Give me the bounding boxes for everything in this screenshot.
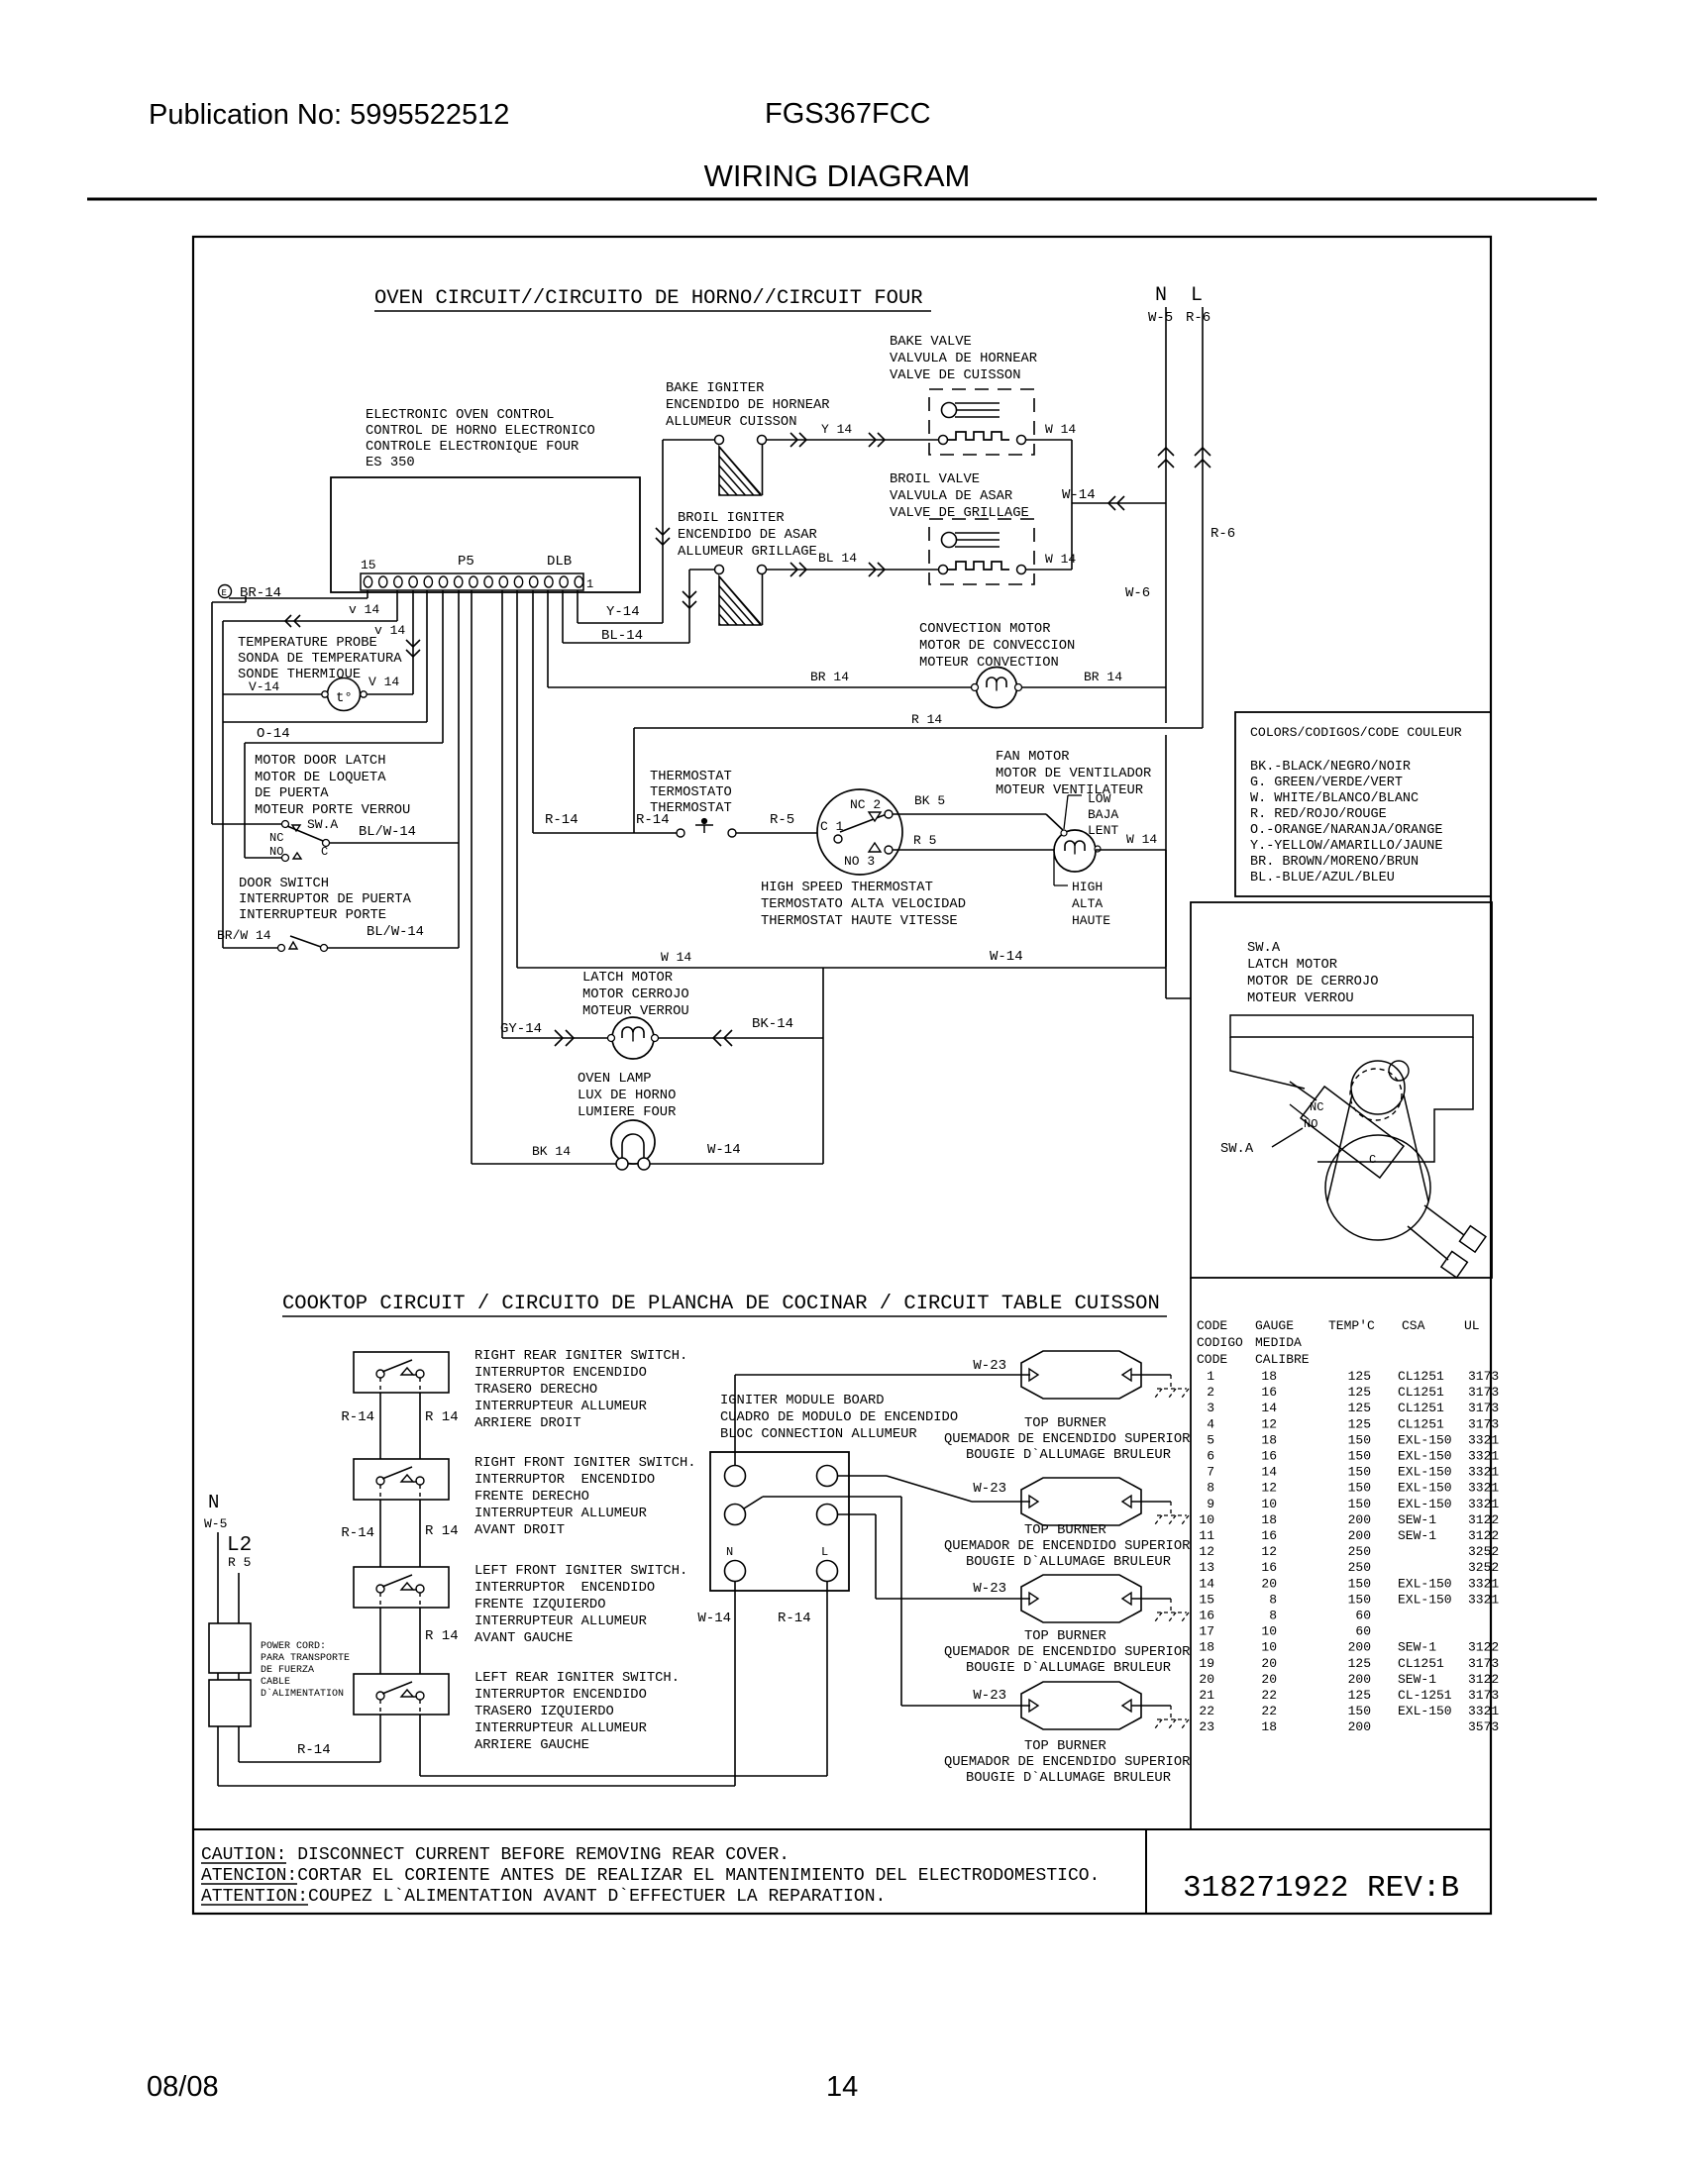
svg-text:v 14: v 14 — [374, 623, 405, 638]
svg-text:BR. BROWN/MORENO/BRUN: BR. BROWN/MORENO/BRUN — [1250, 855, 1419, 870]
bake valve coil — [939, 436, 948, 445]
module board terminals — [725, 1466, 746, 1487]
thermostat enclosure top wire to L — [634, 727, 1203, 729]
svg-text:INTERRUPTOR ENCENDIDO: INTERRUPTOR ENCENDIDO — [474, 1366, 647, 1381]
svg-text:Y-14: Y-14 — [606, 604, 640, 620]
svg-text:14: 14 — [1261, 1465, 1277, 1480]
svg-text:COLORS/CODIGOS/CODE COULEUR: COLORS/CODIGOS/CODE COULEUR — [1250, 725, 1462, 740]
svg-text:EXL-150: EXL-150 — [1398, 1497, 1452, 1511]
svg-text:CSA: CSA — [1402, 1318, 1425, 1333]
svg-text:ALLUMEUR GRILLAGE: ALLUMEUR GRILLAGE — [678, 545, 817, 560]
svg-text:TOP BURNER: TOP BURNER — [1024, 1739, 1106, 1754]
svg-text:BK-14: BK-14 — [752, 1016, 793, 1032]
svg-text:LATCH MOTOR: LATCH MOTOR — [582, 971, 673, 986]
igniter switch S4 box — [354, 1352, 449, 1393]
svg-text:150: 150 — [1348, 1432, 1371, 1447]
svg-text:200: 200 — [1348, 1528, 1371, 1543]
svg-text:t°: t° — [336, 690, 353, 706]
latch motor detail box — [1191, 902, 1492, 1278]
svg-text:20: 20 — [1261, 1576, 1277, 1591]
svg-text:CL1251: CL1251 — [1398, 1401, 1444, 1415]
svg-text:200: 200 — [1348, 1512, 1371, 1527]
svg-text:RIGHT REAR IGNITER SWITCH.: RIGHT REAR IGNITER SWITCH. — [474, 1349, 687, 1364]
svg-text:V 14: V 14 — [368, 675, 399, 689]
igniter switch chain right wire — [419, 1379, 421, 1776]
svg-text:3252: 3252 — [1468, 1544, 1499, 1559]
svg-text:SW.A: SW.A — [1247, 941, 1281, 956]
svg-text:BR/W 14: BR/W 14 — [217, 928, 271, 943]
svg-text:20: 20 — [1199, 1672, 1214, 1687]
svg-text:W-14: W-14 — [990, 949, 1023, 965]
burner B3 spark gap — [1131, 1598, 1171, 1600]
svg-text:SONDA DE TEMPERATURA: SONDA DE TEMPERATURA — [238, 652, 402, 667]
svg-text:CL-1251: CL-1251 — [1398, 1688, 1452, 1703]
wire pin15 to earth terminal — [367, 590, 368, 598]
wire W 14 fan to N — [1096, 849, 1166, 851]
svg-text:SW.A: SW.A — [307, 817, 338, 832]
svg-text:THERMOSTAT HAUTE VITESSE: THERMOSTAT HAUTE VITESSE — [761, 914, 958, 929]
svg-text:3252: 3252 — [1468, 1560, 1499, 1575]
svg-text:TRASERO IZQUIERDO: TRASERO IZQUIERDO — [474, 1705, 614, 1719]
svg-text:ALTA: ALTA — [1072, 896, 1103, 911]
svg-text:INTERRUPTEUR ALLUMEUR: INTERRUPTEUR ALLUMEUR — [474, 1400, 647, 1414]
svg-text:16: 16 — [1199, 1609, 1214, 1623]
wire module L drop — [826, 1582, 828, 1776]
electronic oven control ES 350 box U1 — [331, 477, 640, 592]
svg-text:R-14: R-14 — [778, 1611, 811, 1626]
svg-text:ARRIERE GAUCHE: ARRIERE GAUCHE — [474, 1738, 589, 1753]
svg-text:BROIL IGNITER: BROIL IGNITER — [678, 511, 785, 526]
wire V-14 upper with arrows — [396, 590, 398, 621]
svg-text:3321: 3321 — [1468, 1481, 1499, 1496]
svg-text:FGS367FCC: FGS367FCC — [765, 98, 931, 130]
svg-text:R. RED/ROJO/ROUGE: R. RED/ROJO/ROUGE — [1250, 807, 1387, 822]
svg-text:20: 20 — [1261, 1656, 1277, 1671]
wire module N drop — [734, 1582, 736, 1786]
svg-text:BK 5: BK 5 — [914, 793, 945, 808]
svg-text:2: 2 — [1207, 1385, 1214, 1400]
svg-text:CAUTION: DISCONNECT CURRENT BE: CAUTION: DISCONNECT CURRENT BEFORE REMOV… — [201, 1845, 789, 1865]
svg-text:v 14: v 14 — [349, 602, 379, 617]
svg-text:VALVULA DE HORNEAR: VALVULA DE HORNEAR — [890, 352, 1037, 366]
wire BK 14 pin to oven lamp — [471, 590, 473, 1164]
svg-text:23: 23 — [1199, 1719, 1214, 1734]
wire BK-14 latch motor — [658, 1037, 823, 1039]
svg-text:TOP BURNER: TOP BURNER — [1024, 1629, 1106, 1644]
svg-text:SW.A: SW.A — [1220, 1142, 1254, 1157]
svg-text:TOP BURNER: TOP BURNER — [1024, 1416, 1106, 1431]
svg-text:7: 7 — [1207, 1465, 1214, 1480]
svg-text:LEFT REAR IGNITER SWITCH.: LEFT REAR IGNITER SWITCH. — [474, 1671, 680, 1686]
svg-text:16: 16 — [1261, 1528, 1277, 1543]
svg-text:3321: 3321 — [1468, 1432, 1499, 1447]
switch SW.A in door latch — [282, 821, 289, 828]
svg-text:R-5: R-5 — [770, 812, 794, 828]
svg-text:BAKE IGNITER: BAKE IGNITER — [666, 381, 764, 396]
svg-text:R-6: R-6 — [1186, 310, 1210, 326]
broil igniter E2 hatched — [715, 566, 724, 574]
svg-text:W 14: W 14 — [1045, 422, 1076, 437]
svg-text:BL 14: BL 14 — [818, 551, 857, 566]
svg-text:BOUGIE D`ALLUMAGE BRULEUR: BOUGIE D`ALLUMAGE BRULEUR — [966, 1554, 1171, 1570]
svg-text:BOUGIE D`ALLUMAGE BRULEUR: BOUGIE D`ALLUMAGE BRULEUR — [966, 1660, 1171, 1676]
svg-text:BLOC CONNECTION ALLUMEUR: BLOC CONNECTION ALLUMEUR — [720, 1427, 917, 1442]
svg-text:POWER CORD:: POWER CORD: — [261, 1641, 326, 1652]
igniter switch chain left wire — [379, 1379, 381, 1762]
svg-text:MOTEUR VERROU: MOTEUR VERROU — [1247, 991, 1354, 1006]
svg-text:60: 60 — [1355, 1609, 1371, 1623]
svg-text:W-23: W-23 — [973, 1358, 1006, 1374]
svg-text:BROIL VALVE: BROIL VALVE — [890, 472, 980, 487]
svg-text:125: 125 — [1348, 1385, 1371, 1400]
svg-text:GAUGE: GAUGE — [1255, 1318, 1294, 1333]
svg-text:ES 350: ES 350 — [366, 456, 415, 470]
svg-text:MEDIDA: MEDIDA — [1255, 1335, 1302, 1350]
svg-text:W. WHITE/BLANCO/BLANC: W. WHITE/BLANCO/BLANC — [1250, 791, 1419, 806]
wire N cooktop vertical — [217, 1532, 219, 1786]
svg-text:10: 10 — [1261, 1624, 1277, 1639]
wire module to burner4 — [744, 1497, 763, 1508]
svg-text:W-5: W-5 — [1148, 310, 1173, 326]
svg-text:3321: 3321 — [1468, 1497, 1499, 1511]
svg-text:125: 125 — [1348, 1416, 1371, 1431]
svg-text:BOUGIE D`ALLUMAGE BRULEUR: BOUGIE D`ALLUMAGE BRULEUR — [966, 1770, 1171, 1786]
svg-text:ENCENDIDO DE HORNEAR: ENCENDIDO DE HORNEAR — [666, 398, 830, 413]
svg-text:200: 200 — [1348, 1719, 1371, 1734]
wire pin drop to door switch — [458, 590, 460, 948]
svg-text:18: 18 — [1261, 1432, 1277, 1447]
wire BK 5 NC to fan motor — [893, 813, 1046, 815]
svg-text:15: 15 — [361, 558, 376, 572]
svg-text:ELECTRONIC OVEN CONTROL: ELECTRONIC OVEN CONTROL — [366, 408, 554, 423]
igniter switch S6 box — [354, 1567, 449, 1608]
wire BL 14 broil igniter to broil valve — [767, 569, 939, 571]
wire R-14 to thermostat switch — [533, 832, 677, 834]
thermostat overtemp switch S2 — [677, 829, 684, 837]
header rule — [87, 198, 1597, 201]
svg-text:INTERRUPTEUR ALLUMEUR: INTERRUPTEUR ALLUMEUR — [474, 1614, 647, 1629]
wire O-14 from pin — [426, 590, 428, 722]
svg-text:3122: 3122 — [1468, 1640, 1499, 1655]
svg-text:FRENTE IZQUIERDO: FRENTE IZQUIERDO — [474, 1598, 605, 1612]
svg-text:EXL-150: EXL-150 — [1398, 1481, 1452, 1496]
svg-text:6: 6 — [1207, 1449, 1214, 1464]
svg-text:BR 14: BR 14 — [810, 670, 849, 684]
wire W 14 bus to latch detail — [516, 590, 518, 968]
svg-text:CABLE: CABLE — [261, 1677, 290, 1688]
svg-text:16: 16 — [1261, 1385, 1277, 1400]
svg-text:150: 150 — [1348, 1481, 1371, 1496]
svg-text:CL1251: CL1251 — [1398, 1385, 1444, 1400]
svg-text:L2: L2 — [227, 1534, 252, 1557]
svg-text:MOTOR DE VENTILADOR: MOTOR DE VENTILADOR — [996, 767, 1151, 781]
svg-text:R-14: R-14 — [297, 1742, 331, 1758]
wire module to burner2 — [838, 1475, 887, 1477]
svg-text:12: 12 — [1261, 1544, 1277, 1559]
svg-text:VALVE DE CUISSON: VALVE DE CUISSON — [890, 368, 1020, 383]
svg-text:22: 22 — [1261, 1688, 1277, 1703]
svg-text:1: 1 — [586, 577, 593, 591]
wire pin to thermostat R-14 — [532, 590, 534, 833]
svg-text:3321: 3321 — [1468, 1576, 1499, 1591]
svg-text:NC: NC — [1310, 1100, 1323, 1114]
svg-text:11: 11 — [1199, 1528, 1214, 1543]
svg-text:3321: 3321 — [1468, 1449, 1499, 1464]
svg-text:R-14: R-14 — [341, 1409, 374, 1425]
latch bracket outline — [1230, 1015, 1473, 1037]
igniter switch S7 box — [354, 1674, 449, 1715]
burner B4 spark gap — [1131, 1705, 1171, 1707]
svg-text:5: 5 — [1207, 1432, 1214, 1447]
svg-text:10: 10 — [1261, 1497, 1277, 1511]
top burner B4 octagon — [1021, 1682, 1141, 1729]
svg-text:R 5: R 5 — [913, 833, 936, 848]
svg-text:CL1251: CL1251 — [1398, 1656, 1444, 1671]
svg-text:200: 200 — [1348, 1640, 1371, 1655]
svg-text:12: 12 — [1261, 1481, 1277, 1496]
high speed thermostat S3 rotary — [817, 789, 902, 875]
wire V-14 to temperature probe — [412, 590, 414, 694]
wire pin to latch enclosure top — [442, 590, 444, 743]
svg-text:22: 22 — [1261, 1704, 1277, 1718]
svg-text:3: 3 — [1207, 1401, 1214, 1415]
svg-text:LUX DE HORNO: LUX DE HORNO — [578, 1089, 676, 1103]
table region divider — [1190, 1278, 1192, 1829]
svg-text:BL/W-14: BL/W-14 — [359, 824, 416, 840]
wire BR 14 right convection to N — [1021, 686, 1166, 688]
svg-text:TERMOSTATO: TERMOSTATO — [650, 785, 732, 800]
svg-text:318271922 REV:B: 318271922 REV:B — [1183, 1871, 1459, 1906]
svg-text:CONTROLE ELECTRONIQUE FOUR: CONTROLE ELECTRONIQUE FOUR — [366, 440, 579, 455]
svg-text:INTERRUPTEUR ALLUMEUR: INTERRUPTEUR ALLUMEUR — [474, 1507, 647, 1521]
svg-text:BL-14: BL-14 — [601, 628, 643, 644]
svg-text:INTERRUPTOR ENCENDIDO: INTERRUPTOR ENCENDIDO — [474, 1581, 655, 1596]
svg-text:12: 12 — [1261, 1416, 1277, 1431]
wire BL-14 from pin to broil igniter — [562, 590, 564, 643]
svg-text:G. GREEN/VERDE/VERT: G. GREEN/VERDE/VERT — [1250, 776, 1403, 790]
svg-text:14: 14 — [826, 2071, 858, 2103]
svg-text:3173: 3173 — [1468, 1369, 1499, 1384]
svg-text:QUEMADOR DE ENCENDIDO SUPERIOR: QUEMADOR DE ENCENDIDO SUPERIOR — [944, 1432, 1190, 1447]
svg-text:QUEMADOR DE ENCENDIDO SUPERIOR: QUEMADOR DE ENCENDIDO SUPERIOR — [944, 1539, 1190, 1554]
svg-text:OVEN LAMP: OVEN LAMP — [578, 1072, 652, 1087]
svg-text:12: 12 — [1199, 1544, 1214, 1559]
svg-text:N: N — [1155, 284, 1167, 307]
svg-text:ALLUMEUR CUISSON: ALLUMEUR CUISSON — [666, 415, 796, 430]
arrow chevrons on N wire — [1158, 448, 1174, 456]
oven lamp DS1 — [611, 1120, 655, 1164]
svg-text:ENCENDIDO DE ASAR: ENCENDIDO DE ASAR — [678, 528, 817, 543]
svg-text:HAUTE: HAUTE — [1072, 913, 1110, 928]
svg-text:3173: 3173 — [1468, 1385, 1499, 1400]
wire right riser latch-lamp — [822, 968, 824, 1164]
svg-text:V-14: V-14 — [249, 679, 279, 694]
svg-text:DLB: DLB — [547, 554, 572, 570]
bake igniter E1 hatched — [715, 436, 724, 445]
svg-text:N: N — [208, 1492, 219, 1513]
wire module to burner3 — [838, 1513, 876, 1515]
svg-text:250: 250 — [1348, 1560, 1371, 1575]
broil valve coil — [939, 566, 948, 574]
svg-text:1: 1 — [1207, 1369, 1214, 1384]
svg-text:LOW: LOW — [1088, 791, 1111, 806]
svg-text:18: 18 — [1261, 1719, 1277, 1734]
svg-text:W 14: W 14 — [1126, 832, 1157, 847]
svg-text:150: 150 — [1348, 1449, 1371, 1464]
svg-text:LEFT FRONT IGNITER SWITCH.: LEFT FRONT IGNITER SWITCH. — [474, 1564, 687, 1579]
svg-text:15: 15 — [1199, 1592, 1214, 1607]
svg-text:RIGHT FRONT IGNITER SWITCH.: RIGHT FRONT IGNITER SWITCH. — [474, 1456, 696, 1471]
svg-text:R-14: R-14 — [545, 812, 579, 828]
svg-text:P5: P5 — [458, 554, 474, 570]
svg-text:INTERRUPTOR ENCENDIDO: INTERRUPTOR ENCENDIDO — [474, 1473, 655, 1488]
earth terminal E with wire BR-14 — [219, 585, 232, 598]
svg-text:INTERRUPTOR ENCENDIDO: INTERRUPTOR ENCENDIDO — [474, 1688, 647, 1703]
svg-text:3122: 3122 — [1468, 1672, 1499, 1687]
svg-text:18: 18 — [1261, 1512, 1277, 1527]
svg-text:3321: 3321 — [1468, 1592, 1499, 1607]
svg-text:EXL-150: EXL-150 — [1398, 1592, 1452, 1607]
svg-text:NO: NO — [1304, 1117, 1317, 1131]
svg-text:EXL-150: EXL-150 — [1398, 1432, 1452, 1447]
svg-text:Y.-YELLOW/AMARILLO/JAUNE: Y.-YELLOW/AMARILLO/JAUNE — [1250, 839, 1442, 854]
latch motor M3 — [612, 1017, 654, 1059]
svg-text:ARRIERE DROIT: ARRIERE DROIT — [474, 1416, 581, 1431]
svg-text:FAN MOTOR: FAN MOTOR — [996, 750, 1070, 765]
svg-text:3122: 3122 — [1468, 1528, 1499, 1543]
svg-text:60: 60 — [1355, 1624, 1371, 1639]
svg-text:E: E — [222, 588, 227, 598]
svg-text:BL/W-14: BL/W-14 — [367, 924, 424, 940]
svg-text:W 14: W 14 — [661, 950, 691, 965]
svg-text:INTERRUPTOR DE PUERTA: INTERRUPTOR DE PUERTA — [239, 892, 412, 907]
svg-text:W-14: W-14 — [697, 1611, 731, 1626]
svg-text:BR 14: BR 14 — [1084, 670, 1122, 684]
igniter module board U2 box — [710, 1452, 849, 1591]
svg-text:AVANT DROIT: AVANT DROIT — [474, 1523, 565, 1538]
svg-text:PARA TRANSPORTE: PARA TRANSPORTE — [261, 1653, 350, 1664]
svg-text:19: 19 — [1199, 1656, 1214, 1671]
svg-text:HIGH: HIGH — [1072, 880, 1103, 894]
wire door switch to pin — [327, 947, 459, 949]
svg-text:3173: 3173 — [1468, 1401, 1499, 1415]
svg-text:W-23: W-23 — [973, 1481, 1006, 1497]
wire module to burner1 — [734, 1375, 736, 1465]
svg-text:18: 18 — [1261, 1369, 1277, 1384]
top burner B1 octagon — [1021, 1351, 1141, 1399]
svg-text:200: 200 — [1348, 1672, 1371, 1687]
svg-text:QUEMADOR DE ENCENDIDO SUPERIOR: QUEMADOR DE ENCENDIDO SUPERIOR — [944, 1645, 1190, 1660]
svg-text:LUMIERE FOUR: LUMIERE FOUR — [578, 1105, 676, 1120]
svg-text:NC 2: NC 2 — [850, 797, 881, 812]
wire R 5 NO to fan motor — [893, 849, 1054, 851]
svg-text:NO 3: NO 3 — [844, 854, 875, 869]
svg-text:O-14: O-14 — [257, 726, 290, 742]
bake valve L1 dashed box — [929, 389, 1034, 455]
svg-text:16: 16 — [1261, 1560, 1277, 1575]
wire Y-14 from pin DLB to bake igniter — [577, 590, 579, 623]
svg-text:N: N — [726, 1545, 733, 1559]
svg-text:C: C — [1369, 1153, 1376, 1167]
svg-text:EXL-150: EXL-150 — [1398, 1449, 1452, 1464]
svg-text:TERMOSTATO ALTA VELOCIDAD: TERMOSTATO ALTA VELOCIDAD — [761, 897, 966, 912]
svg-text:CODIGO: CODIGO — [1197, 1335, 1243, 1350]
latch switch body rotated — [1301, 1087, 1404, 1178]
svg-text:C: C — [321, 845, 328, 859]
svg-text:COOKTOP CIRCUIT / CIRCUITO DE: COOKTOP CIRCUIT / CIRCUITO DE PLANCHA DE… — [282, 1293, 1160, 1315]
svg-text:R-14: R-14 — [341, 1525, 374, 1541]
svg-text:SEW-1: SEW-1 — [1398, 1640, 1436, 1655]
svg-text:150: 150 — [1348, 1704, 1371, 1718]
svg-text:L: L — [821, 1545, 828, 1559]
connector strip P5 — [361, 573, 583, 590]
svg-text:INTERRUPTEUR ALLUMEUR: INTERRUPTEUR ALLUMEUR — [474, 1721, 647, 1736]
caution band top line — [193, 1828, 1491, 1830]
svg-text:IGNITER MODULE BOARD: IGNITER MODULE BOARD — [720, 1394, 885, 1408]
top burner B2 octagon — [1021, 1478, 1141, 1525]
svg-text:BOUGIE D`ALLUMAGE BRULEUR: BOUGIE D`ALLUMAGE BRULEUR — [966, 1447, 1171, 1463]
svg-text:Y 14: Y 14 — [821, 422, 852, 437]
svg-text:BK 14: BK 14 — [532, 1144, 571, 1159]
svg-text:150: 150 — [1348, 1576, 1371, 1591]
svg-text:QUEMADOR DE ENCENDIDO SUPERIOR: QUEMADOR DE ENCENDIDO SUPERIOR — [944, 1755, 1190, 1770]
svg-text:3173: 3173 — [1468, 1656, 1499, 1671]
svg-text:R 14: R 14 — [911, 712, 942, 727]
svg-text:O.-ORANGE/NARANJA/ORANGE: O.-ORANGE/NARANJA/ORANGE — [1250, 823, 1442, 838]
svg-text:3321: 3321 — [1468, 1465, 1499, 1480]
svg-text:D`ALIMENTATION: D`ALIMENTATION — [261, 1687, 344, 1700]
svg-text:20: 20 — [1261, 1672, 1277, 1687]
svg-text:CL1251: CL1251 — [1398, 1416, 1444, 1431]
svg-text:08/08: 08/08 — [147, 2071, 219, 2103]
wire BL/W-14 from SW.A — [330, 842, 459, 844]
svg-text:W-5: W-5 — [204, 1516, 227, 1531]
svg-text:125: 125 — [1348, 1369, 1371, 1384]
svg-text:22: 22 — [1199, 1704, 1214, 1718]
power cord block lower — [209, 1680, 251, 1726]
svg-text:16: 16 — [1261, 1449, 1277, 1464]
svg-text:ATENCION:CORTAR EL CORIENTE AN: ATENCION:CORTAR EL CORIENTE ANTES DE REA… — [201, 1866, 1100, 1886]
svg-text:EXL-150: EXL-150 — [1398, 1465, 1452, 1480]
svg-text:WIRING DIAGRAM: WIRING DIAGRAM — [704, 158, 971, 193]
svg-text:150: 150 — [1348, 1497, 1371, 1511]
svg-text:W-23: W-23 — [973, 1688, 1006, 1704]
svg-text:OVEN CIRCUIT//CIRCUITO DE HORN: OVEN CIRCUIT//CIRCUITO DE HORNO//CIRCUIT… — [374, 287, 923, 310]
svg-text:3321: 3321 — [1468, 1704, 1499, 1718]
svg-text:125: 125 — [1348, 1401, 1371, 1415]
svg-text:CODE: CODE — [1197, 1352, 1227, 1367]
svg-text:DOOR SWITCH: DOOR SWITCH — [239, 877, 329, 891]
wire NO terminal from rail — [245, 857, 282, 859]
svg-text:W-23: W-23 — [973, 1581, 1006, 1597]
svg-text:CUADRO DE MODULO DE ENCENDIDO: CUADRO DE MODULO DE ENCENDIDO — [720, 1410, 958, 1425]
svg-text:17: 17 — [1199, 1624, 1214, 1639]
convection motor M1 — [977, 668, 1017, 708]
svg-text:TOP BURNER: TOP BURNER — [1024, 1523, 1106, 1538]
svg-text:250: 250 — [1348, 1544, 1371, 1559]
svg-text:EXL-150: EXL-150 — [1398, 1704, 1452, 1718]
svg-text:R-14: R-14 — [636, 812, 670, 828]
svg-text:THERMOSTAT: THERMOSTAT — [650, 770, 732, 784]
svg-text:8: 8 — [1269, 1609, 1277, 1623]
svg-text:TEMPERATURE PROBE: TEMPERATURE PROBE — [238, 636, 377, 651]
left rail to door switch — [222, 621, 224, 948]
svg-text:18: 18 — [1199, 1640, 1214, 1655]
latch motor legs — [1424, 1205, 1464, 1235]
svg-text:ATTENTION:COUPEZ L`ALIMENTATIO: ATTENTION:COUPEZ L`ALIMENTATION AVANT D`… — [201, 1887, 886, 1907]
wire L2 cooktop vertical — [238, 1573, 240, 1762]
svg-text:SEW-1: SEW-1 — [1398, 1672, 1436, 1687]
